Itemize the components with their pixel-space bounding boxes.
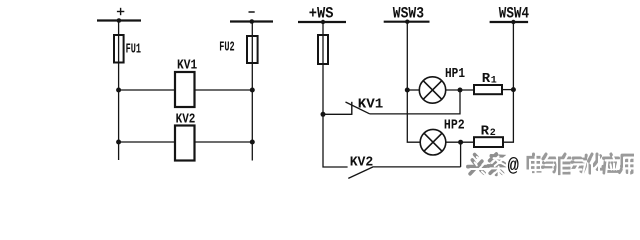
- junction dot HP1/R1/KV1 node: [458, 88, 463, 93]
- svg-text:R: R: [481, 123, 490, 139]
- svg-text:FU1: FU1: [126, 41, 141, 57]
- fuse FU1: [114, 35, 124, 63]
- junction dot at + terminal: [117, 18, 122, 23]
- wire HP2 to R2: [446, 141, 474, 143]
- svg-text:+WS: +WS: [309, 5, 334, 23]
- resistor R2: [474, 137, 503, 147]
- svg-text:@: @: [508, 155, 520, 177]
- junction dot at WSW4 terminal: [511, 20, 515, 24]
- junction dot rail+ / KV1 branch: [116, 88, 121, 93]
- wire WSW3 to HP1 lamp: [407, 89, 419, 91]
- fuse F3 on +WS rail: [318, 35, 328, 64]
- svg-text:KV1: KV1: [358, 96, 384, 112]
- junction dot at WSW3 terminal: [405, 20, 409, 24]
- relay coil KV2: [175, 126, 195, 161]
- node +WS (control supply terminal): [298, 21, 346, 23]
- svg-text:KV2: KV2: [350, 154, 374, 170]
- svg-text:2: 2: [490, 128, 496, 139]
- junction dot rail- / KV1 branch: [250, 88, 255, 93]
- svg-text:HP1: HP1: [445, 66, 465, 82]
- junction dot rail+ / KV2 branch: [116, 140, 121, 145]
- contact KV1 (normally open) fixed terminal tick: [351, 102, 353, 115]
- junction dot WSW3 rail / HP1 branch: [405, 88, 410, 93]
- wire R1 to WSW4 rail: [502, 89, 513, 91]
- wire KV1 branch left: [119, 89, 175, 91]
- relay coil KV1: [175, 72, 195, 107]
- junction dot at +WS terminal: [321, 20, 325, 24]
- wire WSW3 rail down with corner to HP2: [407, 22, 420, 143]
- wire KV1 contact row left: [323, 113, 352, 115]
- wire KV2 branch right: [195, 141, 253, 143]
- node + (positive supply terminal): [97, 8, 141, 21]
- wire KV1 branch right: [195, 89, 253, 91]
- contact KV1 movable blade: [346, 102, 370, 114]
- wire HP1 to R1: [446, 89, 474, 91]
- svg-text:KV1: KV1: [177, 57, 197, 73]
- node WSW3 (signal bus terminal): [384, 21, 430, 23]
- lamp HP2: [420, 129, 446, 155]
- svg-text:1: 1: [491, 75, 497, 86]
- wire WSW4 rail down with corner to R2: [503, 22, 513, 142]
- node - (negative supply terminal): [230, 12, 273, 22]
- junction dot R1 / WSW4 rail: [511, 87, 516, 92]
- wire KV2 branch left: [119, 141, 175, 143]
- junction dot at - terminal: [250, 19, 255, 24]
- wire riser HP2 node down to KV2 row: [460, 142, 462, 167]
- wire left negative rail: [251, 22, 253, 161]
- node WSW4 (signal bus terminal): [490, 21, 528, 23]
- svg-text:HP2: HP2: [444, 117, 465, 133]
- wire KV1 contact row right with riser to HP1 node: [370, 90, 460, 114]
- contact KV2 (normally open) movable blade: [348, 167, 373, 179]
- junction dot rail- / KV2 branch: [250, 140, 255, 145]
- svg-text:KV2: KV2: [176, 111, 196, 127]
- wire KV2 contact row right: [374, 166, 461, 168]
- resistor R1: [474, 85, 502, 94]
- wire +WS rail down and KV2 row left segment: [323, 22, 348, 167]
- svg-text:FU2: FU2: [219, 39, 234, 55]
- junction dot HP2/R2/KV2 node: [458, 140, 463, 145]
- lamp HP1: [419, 77, 445, 103]
- fuse FU2: [247, 36, 258, 63]
- wire left positive rail: [118, 21, 120, 161]
- junction dot +WS rail / KV1 contact row: [321, 112, 326, 117]
- svg-text:R: R: [482, 71, 491, 87]
